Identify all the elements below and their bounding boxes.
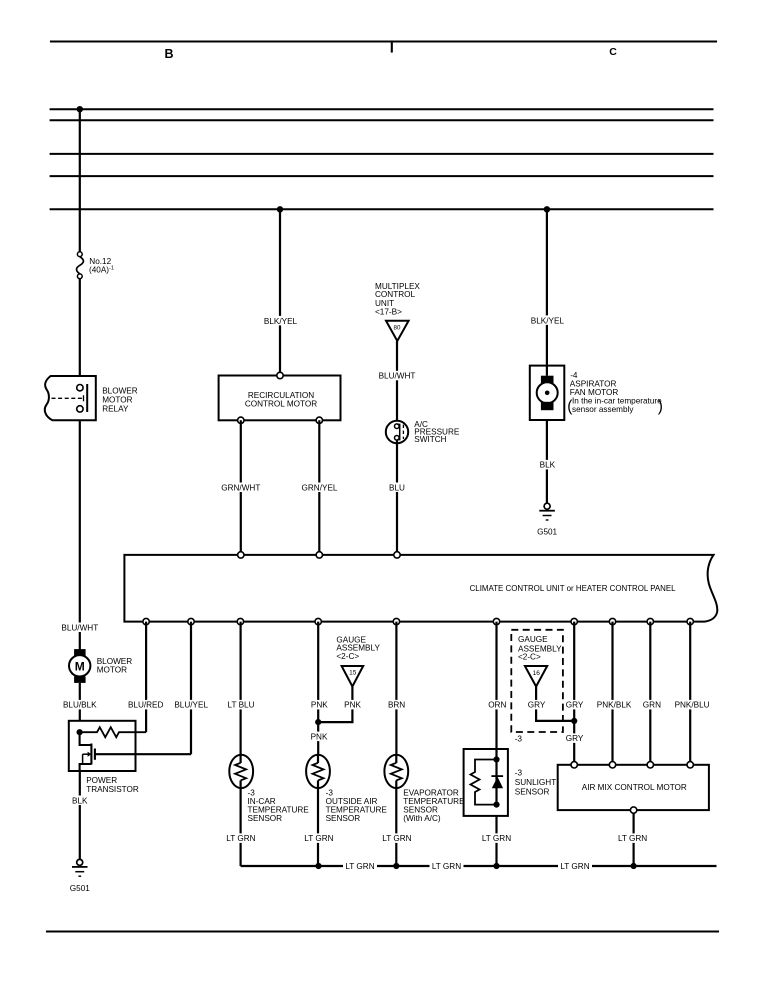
svg-text:RELAY: RELAY xyxy=(102,404,129,413)
resistor in transistor xyxy=(80,727,147,737)
aspirator fan motor xyxy=(530,366,565,420)
svg-text:GRY: GRY xyxy=(528,701,546,710)
svg-text:sensor assembly: sensor assembly xyxy=(572,405,634,414)
svg-text:ORN: ORN xyxy=(488,701,506,710)
svg-text:(With A/C): (With A/C) xyxy=(403,814,441,823)
sunlight sensor xyxy=(464,749,508,816)
svg-text:SENSOR: SENSOR xyxy=(515,787,550,796)
svg-text:<2-C>: <2-C> xyxy=(336,652,359,661)
svg-text:-3: -3 xyxy=(515,735,523,744)
svg-text:BLU/BLK: BLU/BLK xyxy=(63,701,97,710)
svg-text:C: C xyxy=(609,46,617,58)
wire bus line 1 xyxy=(50,108,714,110)
wire relay to blower motor BLU/WHT xyxy=(79,420,81,649)
wire BLK/YEL to aspirator xyxy=(546,209,548,375)
svg-text:BLK/YEL: BLK/YEL xyxy=(531,316,565,325)
wire PNK xyxy=(317,622,319,756)
junction dot bus evaporator xyxy=(393,863,399,869)
svg-text:G501: G501 xyxy=(70,884,90,893)
svg-text:BLU/WHT: BLU/WHT xyxy=(379,372,416,381)
svg-text:PNK: PNK xyxy=(344,701,361,710)
wire PNK/BLK xyxy=(611,622,613,765)
svg-text:LT GRN: LT GRN xyxy=(432,862,461,871)
wire LT GRN air mix xyxy=(632,813,634,866)
wire fuse to relay xyxy=(79,279,81,376)
junction dot GRY xyxy=(571,718,577,724)
wire bus line 5 xyxy=(50,208,714,210)
wire BLU/RED xyxy=(145,622,147,733)
wire BLK aspirator xyxy=(546,420,548,503)
wire GRY gauge xyxy=(536,687,574,721)
svg-text:AIR MIX CONTROL MOTOR: AIR MIX CONTROL MOTOR xyxy=(582,783,687,792)
recirculation control motor xyxy=(219,376,341,421)
svg-text:MOTOR: MOTOR xyxy=(97,666,127,675)
connector gauge assembly 2-C no.16 dashed xyxy=(511,630,563,732)
wire LT GRN evaporator xyxy=(395,788,397,866)
wire LT GRN outside xyxy=(317,788,319,866)
wire PNK gauge xyxy=(318,687,352,723)
wire LT GRN bottom bus xyxy=(241,865,717,867)
svg-text:PNK/BLU: PNK/BLU xyxy=(675,701,710,710)
svg-text:GAUGE: GAUGE xyxy=(518,635,548,644)
svg-text:-3: -3 xyxy=(515,768,523,777)
junction dot bus sunlight xyxy=(493,863,499,869)
wire BLU/YEL to gate xyxy=(190,622,192,755)
in-car temperature sensor xyxy=(229,755,253,788)
svg-text:GRY: GRY xyxy=(566,701,584,710)
svg-text:LT GRN: LT GRN xyxy=(482,834,511,843)
node resistor junction xyxy=(77,729,83,735)
wire gate BLU/YEL xyxy=(95,753,191,755)
wire blower to transistor BLU/BLK xyxy=(79,683,81,721)
svg-text:BLU/WHT: BLU/WHT xyxy=(61,624,98,633)
wire LT GRN sunlight xyxy=(495,816,497,866)
svg-text:<2-C>: <2-C> xyxy=(518,652,541,661)
wire BLK/YEL to recirculation motor xyxy=(279,209,281,375)
evaporator temperature sensor xyxy=(384,755,408,788)
wire ORN xyxy=(495,622,497,760)
junction dot PNK xyxy=(315,719,321,725)
fuse No.12 (40A) xyxy=(77,252,84,279)
svg-text:PNK: PNK xyxy=(311,732,328,741)
wire bus line 2 xyxy=(50,119,714,121)
svg-text:SENSOR: SENSOR xyxy=(326,814,361,823)
svg-text:B: B xyxy=(164,47,173,61)
svg-text:15: 15 xyxy=(349,670,357,677)
svg-text:SENSOR: SENSOR xyxy=(248,814,283,823)
svg-text:TRANSISTOR: TRANSISTOR xyxy=(86,785,139,794)
node climate bottom terminals xyxy=(143,618,694,624)
A/C pressure switch xyxy=(386,421,408,443)
ground G501 right xyxy=(544,503,550,509)
wire GRN/WHT xyxy=(240,420,242,555)
svg-text:GRN: GRN xyxy=(643,701,661,710)
wire bus line 4 xyxy=(50,175,714,177)
svg-text:PNK: PNK xyxy=(311,701,328,710)
wire GRY xyxy=(573,622,575,765)
svg-text:LT BLU: LT BLU xyxy=(228,701,255,710)
svg-text:GRY: GRY xyxy=(566,734,584,743)
svg-text:GRN/WHT: GRN/WHT xyxy=(221,483,260,492)
wire LT BLU xyxy=(240,622,242,756)
wire BLU/WHT multiplex xyxy=(396,341,398,424)
climate control unit box xyxy=(124,555,717,622)
svg-text:BLOWER: BLOWER xyxy=(97,657,133,666)
junction dot bus air mix xyxy=(631,863,637,869)
svg-text:80: 80 xyxy=(394,324,401,331)
svg-text:CLIMATE CONTROL UNIT or HEATER: CLIMATE CONTROL UNIT or HEATER CONTROL P… xyxy=(470,584,676,593)
svg-text:SUNLIGHT: SUNLIGHT xyxy=(515,778,556,787)
svg-text:BLU: BLU xyxy=(389,483,405,492)
svg-text:<17-B>: <17-B> xyxy=(375,307,402,316)
wire LT GRN in-car xyxy=(240,788,242,866)
junction dot bus outside xyxy=(315,863,321,869)
svg-text:LT GRN: LT GRN xyxy=(560,862,589,871)
blower motor relay xyxy=(45,376,96,420)
svg-text:(: ( xyxy=(567,398,573,415)
junction dot recirc feed xyxy=(277,206,283,212)
svg-text:GRN/YEL: GRN/YEL xyxy=(302,483,338,492)
ground G501 left xyxy=(77,859,83,865)
power transistor Q box xyxy=(69,721,136,771)
svg-text:BLU/RED: BLU/RED xyxy=(128,701,164,710)
node climate top terminals xyxy=(238,552,244,558)
svg-text:MOTOR: MOTOR xyxy=(102,395,132,404)
wire feed to fuse xyxy=(79,109,81,252)
transistor Q1 mosfet xyxy=(80,732,95,771)
air mix control motor xyxy=(558,765,709,810)
svg-text:LT GRN: LT GRN xyxy=(226,834,255,843)
wire bus line 3 xyxy=(50,153,714,155)
svg-text:LT GRN: LT GRN xyxy=(618,834,647,843)
svg-text:BLK/YEL: BLK/YEL xyxy=(264,317,298,326)
svg-text:BLK: BLK xyxy=(72,796,88,805)
svg-text:LT GRN: LT GRN xyxy=(382,834,411,843)
svg-text:16: 16 xyxy=(533,670,541,677)
svg-text:BLOWER: BLOWER xyxy=(102,386,138,395)
junction dot aspirator feed xyxy=(544,206,550,212)
svg-text:): ) xyxy=(658,398,663,415)
wire GRN/YEL xyxy=(318,420,320,555)
wire GRN xyxy=(649,622,651,765)
svg-text:BLK: BLK xyxy=(540,461,556,470)
wire PNK/BLU xyxy=(689,622,691,765)
svg-text:BRN: BRN xyxy=(388,701,405,710)
svg-text:BLU/YEL: BLU/YEL xyxy=(174,701,208,710)
svg-text:LT GRN: LT GRN xyxy=(345,862,374,871)
outside air temperature sensor xyxy=(306,755,330,788)
blower motor M xyxy=(74,649,86,656)
svg-text:LT GRN: LT GRN xyxy=(304,834,333,843)
svg-text:M: M xyxy=(75,659,85,673)
junction dot feed left xyxy=(77,106,83,112)
svg-text:CONTROL MOTOR: CONTROL MOTOR xyxy=(245,399,317,408)
wire BLU xyxy=(396,440,398,555)
svg-text:G501: G501 xyxy=(537,528,557,537)
wire BRN xyxy=(395,622,397,756)
wire transistor to ground BLK xyxy=(79,771,81,860)
svg-text:SWITCH: SWITCH xyxy=(414,435,446,444)
svg-text:PNK/BLK: PNK/BLK xyxy=(597,701,632,710)
